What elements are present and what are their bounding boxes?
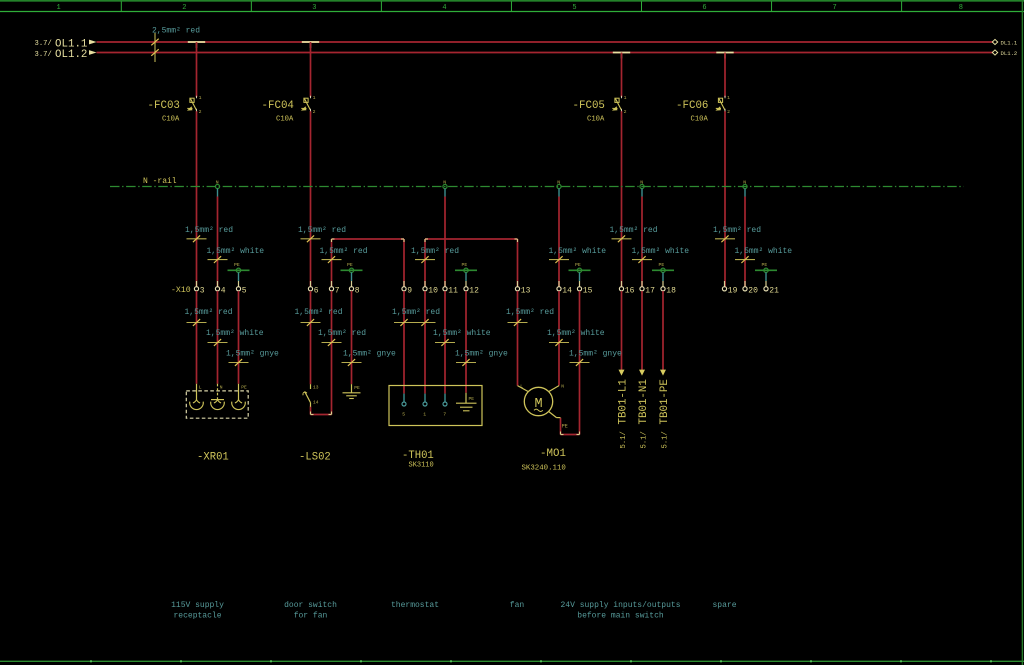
wire LS02 to terminal 7 [311, 291, 332, 415]
svg-text:2: 2 [199, 109, 202, 115]
svg-text:6: 6 [702, 4, 706, 12]
svg-text:DL1.2: DL1.2 [1001, 50, 1018, 57]
wire bus OL1.1 [97, 41, 993, 43]
svg-text:PE: PE [241, 384, 247, 390]
junction tap for -FC04 [302, 42, 319, 48]
svg-text:5: 5 [242, 286, 247, 295]
svg-text:5.1/: 5.1/ [620, 431, 628, 448]
wire terminal 10 to TH01 [424, 291, 426, 402]
terminal 11 [443, 281, 458, 295]
svg-text:5.1/: 5.1/ [640, 431, 648, 448]
svg-text:-FC06: -FC06 [676, 100, 708, 112]
svg-text:1,5mm² red: 1,5mm² red [318, 329, 366, 338]
svg-text:PE: PE [469, 396, 475, 402]
svg-text:2: 2 [182, 4, 186, 12]
svg-text:2: 2 [313, 109, 316, 115]
svg-text:1,5mm² red: 1,5mm² red [295, 308, 343, 317]
svg-text:4: 4 [442, 4, 446, 12]
svg-text:PE: PE [347, 262, 353, 268]
wire gauge labels below terminals [185, 308, 623, 358]
wire terminal 8 to LS02 earth [351, 291, 353, 384]
svg-text:N: N [220, 384, 223, 390]
svg-text:-X10: -X10 [171, 286, 191, 295]
motor -MO1 [518, 384, 568, 430]
svg-text:19: 19 [728, 286, 738, 295]
svg-text:1,5mm² red: 1,5mm² red [411, 247, 459, 256]
wire N to terminal 11 [444, 197, 446, 288]
svg-text:7: 7 [335, 286, 340, 295]
wire terminal 18 to TB01 arrow [660, 291, 666, 376]
svg-text:1,5mm² white: 1,5mm² white [547, 329, 605, 338]
svg-text:16: 16 [625, 286, 635, 295]
svg-text:-MO1: -MO1 [540, 448, 566, 460]
svg-text:1,5mm² white: 1,5mm² white [549, 247, 607, 256]
door switch -LS02 [303, 384, 319, 407]
svg-text:1,5mm² gnye: 1,5mm² gnye [226, 350, 279, 359]
svg-text:N: N [443, 180, 446, 186]
svg-text:-FC03: -FC03 [148, 100, 180, 112]
terminal 18 [661, 281, 676, 295]
svg-text:5: 5 [572, 4, 576, 12]
svg-text:PE: PE [659, 262, 665, 268]
PE tap above terminal 12 [455, 262, 477, 281]
svg-text:PE: PE [354, 385, 360, 391]
net label DL1.2 [992, 50, 1017, 57]
wire N to terminal 14 [558, 197, 560, 288]
svg-text:1,5mm² white: 1,5mm² white [735, 247, 793, 256]
svg-text:N: N [216, 180, 219, 186]
label -MO1 [522, 448, 566, 472]
svg-text:receptacle: receptacle [173, 612, 221, 621]
thermostat -TH01 [389, 386, 482, 426]
label -XR01 [197, 451, 229, 463]
svg-text:SK3240.110: SK3240.110 [522, 465, 566, 473]
svg-text:1,5mm² white: 1,5mm² white [206, 329, 264, 338]
svg-text:15: 15 [583, 286, 593, 295]
earth ground at -LS02 [343, 384, 361, 398]
wire terminal 5 to XR01 PE [238, 291, 240, 384]
wire terminal 9 to TH01 [403, 291, 405, 402]
reference label TB01-PE [659, 379, 671, 448]
svg-text:3.7/: 3.7/ [35, 51, 52, 59]
reference label TB01-L1 [618, 379, 630, 448]
terminal 17 [640, 281, 655, 295]
svg-text:24V supply inputs/outputs: 24V supply inputs/outputs [560, 601, 680, 610]
svg-text:3: 3 [200, 286, 205, 295]
svg-text:14: 14 [562, 286, 572, 295]
svg-text:PE: PE [234, 262, 240, 268]
svg-text:13: 13 [521, 286, 531, 295]
svg-text:1,5mm² red: 1,5mm² red [610, 226, 658, 235]
svg-text:1,5mm² white: 1,5mm² white [207, 247, 265, 256]
wire gauge slash marks above terminals [187, 235, 756, 263]
svg-text:1,5mm² white: 1,5mm² white [433, 329, 491, 338]
svg-text:PE: PE [462, 262, 468, 268]
svg-text:1,5mm² gnye: 1,5mm² gnye [455, 350, 508, 359]
wire terminal 11 to TH01 [444, 291, 446, 402]
svg-text:1,5mm² red: 1,5mm² red [506, 308, 554, 317]
wire terminal 16 to TB01 arrow [619, 291, 625, 376]
wire terminal 15 to MO1 PE [561, 291, 580, 435]
svg-text:1,5mm² gnye: 1,5mm² gnye [343, 350, 396, 359]
terminal 5 [236, 281, 246, 295]
svg-text:1,5mm² red: 1,5mm² red [392, 308, 440, 317]
svg-text:1,5mm² red: 1,5mm² red [185, 226, 233, 235]
N rail tap at x=445 [443, 180, 447, 197]
net label DL1.1 [992, 39, 1018, 46]
svg-text:1: 1 [624, 95, 627, 101]
terminal 12 [464, 281, 479, 295]
svg-text:20: 20 [748, 286, 758, 295]
svg-text:1,5mm² red: 1,5mm² red [298, 226, 346, 235]
svg-text:-FC05: -FC05 [573, 100, 605, 112]
svg-text:thermostat: thermostat [391, 601, 439, 610]
circuit breaker -FC06 [676, 53, 730, 288]
net label OL1.1 [35, 38, 88, 50]
wire terminal 12 to TH01 earth [465, 291, 467, 393]
label -TH01 [402, 450, 434, 470]
svg-text:-FC04: -FC04 [262, 100, 294, 112]
wire gauge slash marks below terminals [187, 319, 590, 366]
svg-text:9: 9 [407, 286, 412, 295]
svg-text:2,5mm² red: 2,5mm² red [152, 26, 200, 35]
circuit breaker -FC05 [573, 53, 627, 288]
terminal 13 [515, 281, 530, 295]
svg-text:21: 21 [769, 286, 779, 295]
svg-text:L: L [520, 384, 523, 390]
svg-text:TB01-N1: TB01-N1 [638, 379, 650, 424]
terminal 4 [215, 281, 225, 295]
terminal 14 [557, 281, 572, 295]
svg-text:1: 1 [423, 411, 426, 417]
terminal 16 [619, 281, 634, 295]
reference label TB01-N1 [638, 379, 650, 448]
svg-text:C10A: C10A [587, 115, 605, 123]
terminal 8 [349, 281, 359, 295]
svg-text:18: 18 [666, 286, 676, 295]
svg-text:TB01-PE: TB01-PE [659, 379, 671, 424]
svg-text:N -rail: N -rail [143, 177, 177, 186]
svg-text:1: 1 [727, 95, 730, 101]
svg-text:1,5mm² gnye: 1,5mm² gnye [569, 350, 622, 359]
svg-text:8: 8 [959, 4, 963, 12]
wire terminal 13 to MO1 L [517, 291, 519, 386]
PE tap above terminal 21 [755, 262, 777, 281]
svg-text:door switch: door switch [284, 601, 337, 610]
PE tap above terminal 15 [569, 262, 591, 281]
svg-text:SK3110: SK3110 [409, 462, 434, 470]
terminal strip label -X10 [171, 286, 191, 295]
wire N to terminal 20 [744, 197, 746, 288]
terminal 10 [423, 281, 438, 295]
svg-text:N: N [640, 180, 643, 186]
svg-text:1,5mm² white: 1,5mm² white [632, 247, 690, 256]
svg-text:11: 11 [448, 286, 458, 295]
wire terminal 4 to XR01 N [217, 291, 219, 384]
wire N to terminal 4 [217, 197, 219, 288]
N rail [110, 177, 964, 186]
svg-text:6: 6 [314, 286, 319, 295]
page border top band [0, 1, 1024, 12]
net label OL1.2 [35, 49, 88, 61]
svg-text:N: N [561, 384, 564, 390]
svg-text:10: 10 [428, 286, 438, 295]
N rail tap at x=745 [743, 180, 747, 197]
svg-text:3: 3 [312, 4, 316, 12]
junction tap for -FC05 [613, 53, 630, 59]
svg-text:C10A: C10A [691, 115, 709, 123]
wire N to terminal 17 [641, 197, 643, 288]
function description texts [171, 601, 737, 621]
terminal 6 [308, 281, 318, 295]
svg-text:14: 14 [313, 399, 319, 405]
wire terminal 17 to TB01 arrow [639, 291, 645, 376]
terminal 9 [402, 281, 412, 295]
cable marker 2.5mm2 red [151, 26, 200, 62]
svg-text:5: 5 [402, 411, 405, 417]
svg-text:OL1.2: OL1.2 [55, 49, 87, 61]
source arrow OL1.2 [89, 50, 97, 55]
svg-text:115V supply: 115V supply [171, 601, 224, 610]
label -LS02 [299, 451, 331, 463]
circuit breaker -FC04 [262, 42, 316, 287]
page border bottom line [0, 660, 1024, 662]
svg-text:4: 4 [221, 286, 226, 295]
svg-text:8: 8 [355, 286, 360, 295]
junction tap for -FC06 [716, 53, 733, 59]
svg-text:-XR01: -XR01 [197, 451, 229, 463]
terminal 20 [743, 281, 758, 295]
svg-text:L: L [199, 384, 202, 390]
svg-text:-LS02: -LS02 [299, 451, 331, 463]
svg-text:1: 1 [199, 95, 202, 101]
svg-text:1,5mm² red: 1,5mm² red [713, 226, 761, 235]
N rail tap at x=217.5 [215, 180, 219, 197]
wire gauge labels above terminals [185, 226, 792, 256]
svg-text:13: 13 [313, 385, 319, 391]
wire bracket terminal 7 to 9 [332, 239, 405, 287]
PE tap above terminal 8 [341, 262, 363, 281]
svg-text:N: N [743, 180, 746, 186]
N rail tap at x=642 [640, 180, 644, 197]
svg-text:1: 1 [313, 95, 316, 101]
wire bus OL1.2 [97, 52, 993, 54]
svg-text:1,5mm² red: 1,5mm² red [320, 247, 368, 256]
svg-text:2: 2 [727, 109, 730, 115]
page border right edge [1021, 0, 1023, 665]
svg-text:PE: PE [762, 262, 768, 268]
svg-text:PE: PE [575, 262, 581, 268]
terminal 21 [764, 281, 779, 295]
junction tap for -FC03 [188, 42, 205, 48]
svg-text:DL1.1: DL1.1 [1001, 39, 1018, 46]
wire terminal 14 to MO1 N [558, 291, 560, 386]
svg-text:5.1/: 5.1/ [661, 431, 669, 448]
wire bracket terminal 10 to 13 [425, 239, 518, 287]
svg-text:2: 2 [624, 109, 627, 115]
wire terminal 3 to XR01 L [196, 291, 198, 384]
terminal 15 [577, 281, 592, 295]
receptacle -XR01 [186, 384, 248, 418]
svg-text:17: 17 [645, 286, 655, 295]
svg-text:1: 1 [57, 4, 61, 12]
svg-text:7: 7 [832, 4, 836, 12]
svg-text:TB01-L1: TB01-L1 [618, 379, 630, 424]
svg-text:N: N [557, 180, 560, 186]
terminal 19 [722, 281, 737, 295]
source arrow OL1.1 [89, 40, 97, 45]
svg-text:before main switch: before main switch [577, 612, 664, 621]
wire terminal 6 to LS02 [310, 291, 312, 384]
svg-text:12: 12 [469, 286, 479, 295]
svg-text:-TH01: -TH01 [402, 450, 434, 462]
svg-text:C10A: C10A [162, 115, 180, 123]
PE tap above terminal 5 [228, 262, 250, 281]
terminal 7 [329, 281, 339, 295]
svg-text:for fan: for fan [294, 612, 328, 621]
N rail tap at x=559 [557, 180, 561, 197]
svg-text:spare: spare [712, 601, 736, 610]
svg-text:C10A: C10A [276, 115, 294, 123]
svg-text:fan: fan [510, 601, 525, 610]
circuit breaker -FC03 [148, 42, 202, 287]
svg-text:7: 7 [443, 411, 446, 417]
terminal 3 [194, 281, 204, 295]
svg-text:PE: PE [562, 424, 568, 430]
PE tap above terminal 18 [652, 262, 674, 281]
svg-text:3.7/: 3.7/ [35, 40, 52, 48]
svg-text:1,5mm² red: 1,5mm² red [185, 308, 233, 317]
